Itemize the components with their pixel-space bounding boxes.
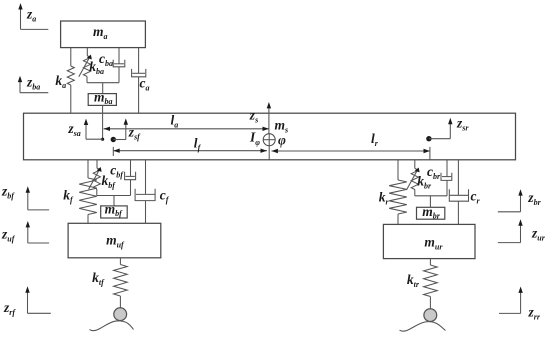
wire connector k_br/c_br	[415, 195, 447, 197]
svg-text:zs: zs	[249, 108, 258, 125]
rear road profile	[400, 322, 446, 332]
svg-text:kr: kr	[379, 190, 390, 207]
wire to m_bf	[113, 196, 115, 206]
svg-text:zrf: zrf	[3, 300, 16, 317]
svg-text:ma: ma	[93, 24, 108, 41]
mass m_ba box	[88, 94, 116, 106]
mass m_a cab box	[61, 21, 146, 48]
tire spring k_tr	[424, 259, 438, 309]
axis z_ba	[18, 76, 49, 93]
svg-text:zur: zur	[531, 225, 546, 242]
svg-text:zuf: zuf	[1, 226, 16, 243]
wire connector k_ba/c_ba	[87, 82, 119, 84]
axis z_sr	[429, 118, 453, 139]
dimension l_a	[104, 127, 269, 131]
svg-text:lr: lr	[371, 131, 379, 148]
axis z_bf	[26, 186, 49, 210]
damper c_ba	[113, 48, 125, 83]
svg-text:zsa: zsa	[67, 121, 80, 138]
axis z_s	[267, 102, 271, 134]
dimension l_f	[113, 147, 267, 156]
svg-text:za: za	[26, 7, 36, 24]
svg-text:cr: cr	[471, 189, 481, 206]
variable spring k_br	[407, 160, 420, 196]
svg-text:φ: φ	[278, 133, 286, 148]
damper c_bf	[125, 160, 136, 196]
svg-text:la: la	[171, 113, 179, 130]
wire to m_ba	[102, 83, 104, 94]
node z_sf big dot	[111, 137, 116, 142]
svg-text:kf: kf	[63, 187, 74, 204]
svg-text:zba: zba	[26, 74, 40, 91]
svg-text:Iφ: Iφ	[249, 130, 260, 148]
axis z_a	[18, 3, 48, 29]
spring k_a	[67, 48, 74, 114]
centre of mass symbol	[263, 134, 275, 146]
svg-text:cbr: cbr	[427, 164, 441, 181]
wire m_ba to node z_sa	[102, 105, 104, 139]
mass m_ur box	[383, 224, 475, 258]
axis z_sa	[84, 119, 103, 140]
svg-text:zbr: zbr	[527, 190, 541, 207]
damper c_br	[441, 160, 452, 196]
svg-text:lf: lf	[194, 136, 202, 153]
svg-text:cba: cba	[99, 51, 113, 68]
svg-text:zsr: zsr	[456, 116, 469, 133]
axis z_uf	[26, 221, 49, 243]
front wheel ball	[114, 308, 127, 321]
axis z_rr	[499, 287, 523, 314]
variable spring k_bf	[89, 160, 102, 196]
axis z_br	[498, 189, 523, 212]
node z_sa dot	[101, 138, 104, 141]
tire spring k_tf	[114, 258, 128, 308]
spring k_f	[79, 160, 97, 224]
svg-text:ca: ca	[140, 76, 150, 93]
axis z_ur	[498, 219, 523, 242]
variable spring k_ba	[79, 48, 92, 83]
axis z_sf	[113, 118, 128, 139]
svg-text:mbr: mbr	[422, 204, 441, 221]
wire connector k_bf/c_bf	[97, 195, 131, 197]
beam chassis m_s	[24, 113, 516, 160]
node z_sr big dot	[426, 136, 431, 141]
dimension l_r	[272, 147, 430, 160]
damper c_a	[132, 48, 146, 114]
damper c_f	[135, 160, 155, 224]
svg-text:mur: mur	[424, 234, 443, 251]
spring k_r	[389, 160, 407, 225]
mass m_bf box	[101, 206, 128, 218]
svg-text:muf: muf	[106, 233, 125, 250]
wire com to beam bottom	[268, 146, 270, 160]
svg-text:ka: ka	[55, 73, 66, 90]
damper c_r	[449, 160, 468, 225]
svg-text:mbf: mbf	[105, 201, 124, 218]
svg-text:ktr: ktr	[407, 272, 420, 289]
axis z_rf	[25, 286, 51, 313]
svg-text:cbf: cbf	[110, 162, 124, 179]
svg-text:zbf: zbf	[1, 183, 15, 200]
rear wheel ball	[424, 309, 437, 322]
svg-text:ktf: ktf	[92, 270, 105, 287]
mass m_br box	[417, 207, 445, 219]
svg-text:zrr: zrr	[528, 305, 541, 322]
svg-text:zsf: zsf	[128, 125, 141, 142]
mass m_uf box	[68, 223, 161, 257]
front road profile	[90, 321, 134, 331]
wire to m_br	[429, 196, 431, 208]
svg-text:mba: mba	[94, 89, 113, 106]
svg-text:cf: cf	[160, 188, 170, 205]
